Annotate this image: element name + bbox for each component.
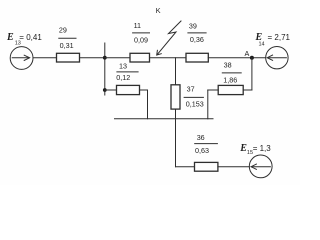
wire resistor 36 to source E15 bbox=[218, 166, 249, 168]
resistor 13 bbox=[117, 85, 140, 94]
wire resistor 13 to corner bbox=[140, 89, 148, 91]
source E14 (circle with left arrow) bbox=[266, 47, 288, 69]
svg-text:= 1,3: = 1,3 bbox=[253, 144, 272, 153]
label 36/0,63 bbox=[194, 133, 218, 155]
svg-text:38: 38 bbox=[224, 60, 232, 69]
resistor 38 bbox=[218, 85, 243, 94]
svg-text:A: A bbox=[245, 49, 250, 58]
svg-text:1,86: 1,86 bbox=[223, 75, 237, 84]
label 39/0,36 bbox=[187, 21, 206, 44]
svg-text:K: K bbox=[156, 6, 161, 15]
svg-text:14: 14 bbox=[259, 41, 265, 47]
bus (vertical stub line) bbox=[104, 43, 106, 95]
wire down to lower bus right bbox=[207, 90, 209, 119]
source E13 (circle with right arrow) bbox=[10, 47, 33, 70]
node A junction dot bbox=[250, 56, 254, 60]
resistor 36 bbox=[195, 162, 218, 171]
svg-text:0,09: 0,09 bbox=[134, 36, 148, 45]
wire resistor 39 to node A bbox=[208, 57, 265, 59]
wire resistor 11 to resistor 39 (fault point K) bbox=[150, 57, 187, 59]
wire main wire down to resistor 37 bbox=[175, 58, 177, 85]
svg-text:0,153: 0,153 bbox=[186, 100, 204, 109]
svg-text:37: 37 bbox=[187, 84, 195, 93]
label 37/0,153 bbox=[184, 84, 204, 108]
junction dot on main wire bbox=[103, 56, 107, 60]
wire E13 to resistor 29 bbox=[33, 57, 57, 59]
label 13/0,12 bbox=[116, 62, 138, 82]
svg-text:36: 36 bbox=[197, 133, 205, 142]
resistor 39 bbox=[186, 53, 208, 62]
lower bus (horizontal node bar) bbox=[115, 118, 214, 120]
resistor 11 bbox=[130, 53, 150, 62]
label E15 = 1,3 bbox=[239, 143, 271, 156]
svg-text:39: 39 bbox=[189, 21, 197, 30]
wire bus to resistor 11 bbox=[105, 57, 130, 59]
label 11/0,09 bbox=[132, 21, 150, 45]
wire resistor 38 left bbox=[208, 89, 218, 91]
svg-text:0,12: 0,12 bbox=[116, 73, 130, 82]
svg-text:0,36: 0,36 bbox=[190, 35, 204, 44]
svg-text:0,31: 0,31 bbox=[60, 41, 74, 50]
svg-text:11: 11 bbox=[134, 21, 141, 30]
wire bus to resistor 13 bbox=[105, 89, 117, 91]
resistor 37 (vertical) bbox=[171, 85, 180, 109]
svg-text:29: 29 bbox=[59, 25, 67, 34]
short-circuit bolt at K bbox=[157, 21, 181, 55]
svg-text:13: 13 bbox=[119, 62, 127, 71]
svg-text:= 0,41: = 0,41 bbox=[19, 33, 42, 42]
wire bottom corner to resistor 36 bbox=[176, 166, 195, 168]
wire resistor 29 to bus node bbox=[80, 57, 105, 59]
svg-text:0,63: 0,63 bbox=[195, 146, 209, 155]
junction dot branch 13 bbox=[103, 88, 107, 92]
label E14 = 2,71 bbox=[255, 32, 291, 47]
svg-text:= 2,71: = 2,71 bbox=[268, 33, 291, 42]
wire lower bus down to bottom branch bbox=[175, 119, 177, 167]
wire resistor 37 to lower bus bbox=[175, 109, 177, 119]
wire to resistor 38 bbox=[243, 89, 252, 91]
label 38/1,86 bbox=[222, 60, 242, 84]
label 29/0,31 bbox=[58, 25, 76, 50]
resistor 29 bbox=[57, 53, 80, 62]
source E15 (circle with left arrow) bbox=[249, 155, 272, 178]
svg-text:E: E bbox=[6, 32, 14, 43]
wire node A down bbox=[251, 58, 253, 90]
wire corner down to lower bus bbox=[147, 90, 149, 119]
label E13 = 0,41 bbox=[6, 32, 42, 47]
